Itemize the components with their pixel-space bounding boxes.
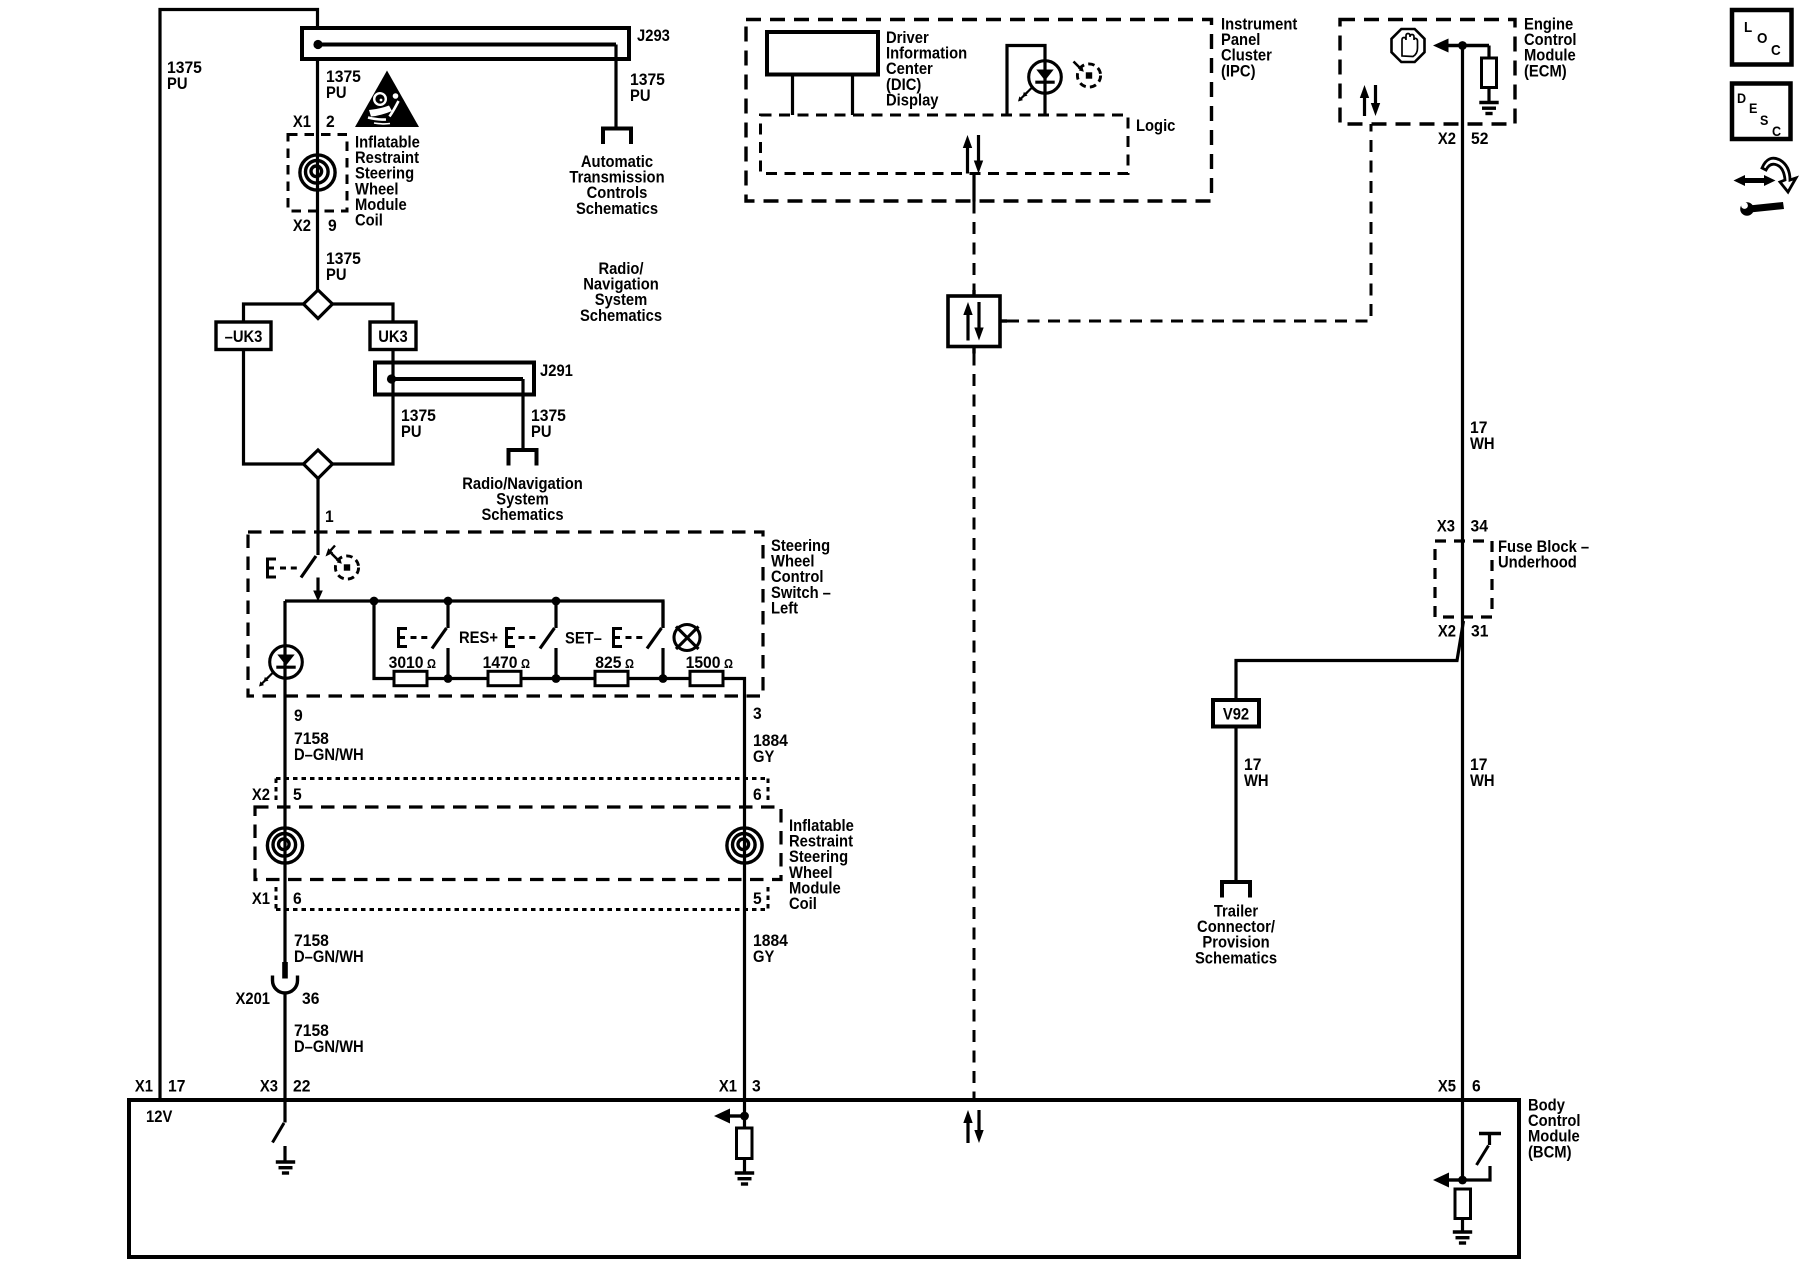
svg-text:825: 825: [595, 654, 621, 672]
wire serial data IPC logic down: [972, 174, 975, 202]
svg-text:X2: X2: [252, 786, 270, 804]
wire through coil: [316, 134, 319, 290]
splice diamond upper: [304, 290, 333, 319]
svg-text:DriverInformationCenter(DIC)Di: DriverInformationCenter(DIC)Display: [886, 29, 967, 109]
option box -UK3: [216, 322, 271, 350]
svg-text:X3: X3: [260, 1078, 278, 1096]
svg-text:Radio/NavigationSystemSchemati: Radio/NavigationSystemSchematics: [462, 475, 583, 524]
wire serial data dashed junction to BCM: [973, 354, 976, 1101]
svg-text:34: 34: [1471, 518, 1489, 536]
wire 17 WH ECM X2-52 down to BCM X5-6: [1461, 46, 1464, 1101]
connector X2 row (dotted): [276, 779, 768, 802]
svg-text:Ω: Ω: [724, 657, 733, 671]
lamp symbol (circled X): [674, 625, 700, 651]
wire diamond to UK3: [333, 304, 394, 322]
svg-text:6: 6: [1472, 1078, 1481, 1096]
svg-text:1470: 1470: [483, 654, 518, 672]
component box Fuse Block Underhood: [1435, 541, 1492, 617]
svg-text:L: L: [1744, 19, 1752, 36]
svg-text:2: 2: [326, 113, 335, 131]
svg-text:–UK3: –UK3: [225, 328, 263, 346]
LED indicator IPC: [1018, 61, 1061, 102]
svg-text:3: 3: [753, 705, 762, 723]
svg-text:RES+: RES+: [459, 629, 498, 647]
svg-text:X2: X2: [1438, 623, 1456, 641]
switch ladder 2 RES+: [507, 601, 557, 679]
option box V92: [1213, 700, 1259, 727]
svg-text:PU: PU: [326, 84, 347, 102]
svg-text:3: 3: [752, 1078, 761, 1096]
svg-text:EngineControlModule(ECM): EngineControlModule(ECM): [1524, 16, 1577, 81]
svg-text:C: C: [1772, 123, 1781, 139]
wire J293 to Automatic Transmission: [614, 45, 617, 128]
svg-text:PU: PU: [531, 423, 552, 441]
svg-text:Ω: Ω: [427, 657, 436, 671]
resistor 3010 ohm: [394, 671, 427, 685]
svg-text:D–GN/WH: D–GN/WH: [294, 948, 364, 966]
resistor BCM sense (X1-3): [714, 1100, 752, 1172]
svg-text:BodyControlModule(BCM): BodyControlModule(BCM): [1528, 1097, 1581, 1162]
svg-text:3010: 3010: [389, 654, 424, 672]
off-page connector to Radio/Navigation: [507, 450, 539, 466]
svg-text:Ω: Ω: [521, 657, 530, 671]
svg-text:AutomaticTransmissionControlsS: AutomaticTransmissionControlsSchematics: [569, 153, 664, 218]
svg-text:12V: 12V: [146, 1108, 172, 1126]
LED indicator (switch illumination): [259, 646, 302, 687]
icon box LOC: [1732, 10, 1792, 65]
svg-text:X3: X3: [1437, 518, 1455, 536]
svg-text:6: 6: [293, 890, 302, 908]
resistor 825 ohm: [595, 671, 628, 685]
svg-text:PU: PU: [326, 266, 347, 284]
svg-text:WH: WH: [1244, 772, 1269, 790]
svg-text:X2: X2: [1438, 130, 1456, 148]
cruise gauge icon IPC: [1074, 62, 1101, 88]
svg-text:UK3: UK3: [378, 328, 408, 346]
svg-text:5: 5: [293, 786, 302, 804]
svg-text:Ω: Ω: [625, 657, 634, 671]
module box Body Control Module (BCM): [129, 1100, 1519, 1257]
module box Instrument Panel Cluster (IPC): [746, 20, 1212, 202]
wire J291 to Radio/Navigation: [521, 379, 524, 449]
connector J291 splice pack: [375, 363, 534, 395]
svg-text:C: C: [1771, 42, 1781, 59]
svg-text:6: 6: [753, 786, 762, 804]
wire DIC legs: [793, 75, 853, 116]
svg-text:9: 9: [294, 707, 303, 725]
svg-text:WH: WH: [1470, 435, 1495, 453]
wire diamond to switch pin 1: [316, 479, 319, 556]
svg-text:X1: X1: [135, 1078, 153, 1096]
svg-text:36: 36: [302, 990, 319, 1008]
svg-text:5: 5: [753, 890, 762, 908]
ground BCM X3-22: [276, 1162, 295, 1173]
wire resistor bus bottom: [394, 679, 745, 697]
cruise gauge icon (switch): [332, 554, 359, 580]
wire switch bus top: [285, 601, 663, 628]
junction dots top bus: [370, 597, 561, 606]
svg-text:GY: GY: [753, 948, 774, 966]
svg-text:D: D: [1737, 90, 1746, 106]
svg-text:PU: PU: [167, 75, 188, 93]
serial data arrows junction box: [963, 302, 983, 341]
serial data arrows IPC logic: [963, 135, 983, 174]
svg-text:O: O: [1757, 30, 1768, 47]
option box UK3: [370, 322, 416, 350]
switch ladder 3 SET-: [614, 601, 664, 679]
serial data junction box: [948, 290, 1007, 354]
coil inflatable restraint left (lower module): [267, 828, 302, 863]
svg-text:PU: PU: [401, 423, 422, 441]
component box Steering Wheel Control Switch Left: [248, 532, 763, 696]
resistor BCM X5-6: [1455, 1189, 1471, 1231]
svg-text:31: 31: [1471, 623, 1488, 641]
wire diamond to -UK3: [244, 304, 304, 322]
wire bus to LED indicator: [283, 601, 286, 697]
wire 1884 GY pin 3 down: [743, 697, 746, 1101]
connector J293 splice pack: [302, 28, 629, 59]
resistor 1500 ohm: [690, 671, 723, 685]
svg-text:X2: X2: [293, 217, 311, 235]
icon box DESC: [1732, 84, 1791, 140]
svg-text:E: E: [1749, 100, 1757, 116]
svg-text:X1: X1: [252, 890, 270, 908]
svg-text:D–GN/WH: D–GN/WH: [294, 746, 364, 764]
switch BCM X5-6: [1433, 1100, 1501, 1188]
svg-text:Radio/NavigationSystemSchemati: Radio/NavigationSystemSchematics: [580, 260, 662, 325]
svg-text:SteeringWheelControlSwitch –Le: SteeringWheelControlSwitch –Left: [771, 537, 831, 617]
icon arrow and wrench: [1734, 158, 1797, 216]
module box Engine Control Module (ECM): [1340, 20, 1515, 125]
wire V92 to trailer connector: [1234, 727, 1237, 882]
svg-text:9: 9: [328, 217, 337, 235]
svg-text:17: 17: [168, 1078, 185, 1096]
svg-text:WH: WH: [1470, 772, 1495, 790]
svg-text:GY: GY: [753, 748, 774, 766]
wire ECM pin 52 with arrow: [1433, 39, 1489, 53]
svg-text:InflatableRestraintSteeringWhe: InflatableRestraintSteeringWheelModuleCo…: [789, 817, 854, 913]
resistor ECM pullup: [1482, 46, 1497, 102]
component box Inflatable Restraint SWM Coil (lower): [255, 807, 781, 880]
octagon hand icon (cruise disable): [1392, 29, 1425, 62]
splice diamond lower: [304, 450, 333, 479]
svg-text:InstrumentPanelCluster(IPC): InstrumentPanelCluster(IPC): [1221, 16, 1298, 81]
wire tap to V92: [1236, 621, 1464, 700]
svg-text:1: 1: [325, 508, 334, 526]
off-page connector to Trailer Connector: [1220, 882, 1252, 898]
wire serial data dashed junction to ECM: [1007, 124, 1371, 321]
wire 1375 PU from J293 to coil module: [316, 59, 319, 134]
svg-text:InflatableRestraintSteeringWhe: InflatableRestraintSteeringWheelModuleCo…: [355, 134, 420, 230]
resistor 1470 ohm: [488, 671, 521, 685]
wire serial data dashed to junction box: [973, 202, 976, 291]
svg-text:TrailerConnector/ProvisionSche: TrailerConnector/ProvisionSchematics: [1195, 903, 1277, 968]
wire -UK3 down to lower diamond: [244, 350, 304, 465]
wire UK3 down through J291: [333, 350, 394, 465]
serial data arrows ECM: [1360, 85, 1380, 116]
DIC display block: [767, 32, 878, 75]
connector X1 row (dotted): [276, 887, 768, 910]
switch cruise on/off: [268, 546, 336, 578]
connector X201 inline: [273, 962, 298, 1100]
ground ECM internal: [1479, 103, 1498, 114]
switch ladder 1: [399, 601, 449, 679]
svg-text:X1: X1: [293, 113, 311, 131]
airbag warning triangle icon: [355, 71, 419, 128]
component box Inflatable Restraint Steering Wheel Module Coil (upper): [288, 135, 347, 212]
wire 12V left rail from BCM X1-17 up and over to J293: [160, 10, 318, 1101]
svg-text:V92: V92: [1223, 706, 1249, 724]
ground BCM X1-3: [735, 1173, 754, 1184]
wire switch to bus with arrow: [313, 578, 323, 602]
svg-text:Logic: Logic: [1136, 117, 1175, 135]
switch BCM ground (X3-22): [273, 1100, 286, 1161]
svg-text:X1: X1: [719, 1078, 737, 1096]
svg-text:Fuse Block –Underhood: Fuse Block –Underhood: [1498, 538, 1589, 572]
svg-text:PU: PU: [630, 87, 651, 105]
serial data arrows BCM: [963, 1110, 983, 1143]
wire first ladder branch: [374, 601, 394, 679]
svg-text:SET–: SET–: [565, 630, 602, 648]
svg-text:J293: J293: [637, 27, 670, 45]
coil inflatable restraint right (lower module): [727, 828, 762, 863]
svg-text:X201: X201: [236, 990, 271, 1008]
svg-text:52: 52: [1471, 130, 1488, 148]
svg-text:1500: 1500: [686, 654, 721, 672]
svg-text:J291: J291: [540, 362, 573, 380]
ground BCM X5-6: [1453, 1232, 1472, 1243]
junction dots bottom bus: [444, 674, 668, 683]
svg-text:S: S: [1760, 112, 1768, 128]
wire 7158 D-GN/WH pin 9 down: [283, 697, 286, 967]
svg-text:X5: X5: [1438, 1078, 1456, 1096]
coil inflatable restraint steering wheel module (upper): [300, 155, 335, 190]
svg-text:D–GN/WH: D–GN/WH: [294, 1038, 364, 1056]
logic box: [761, 115, 1129, 174]
wire IPC LED loop: [1007, 46, 1045, 116]
off-page connector to Automatic Transmission Controls: [601, 129, 633, 145]
svg-text:22: 22: [293, 1078, 310, 1096]
